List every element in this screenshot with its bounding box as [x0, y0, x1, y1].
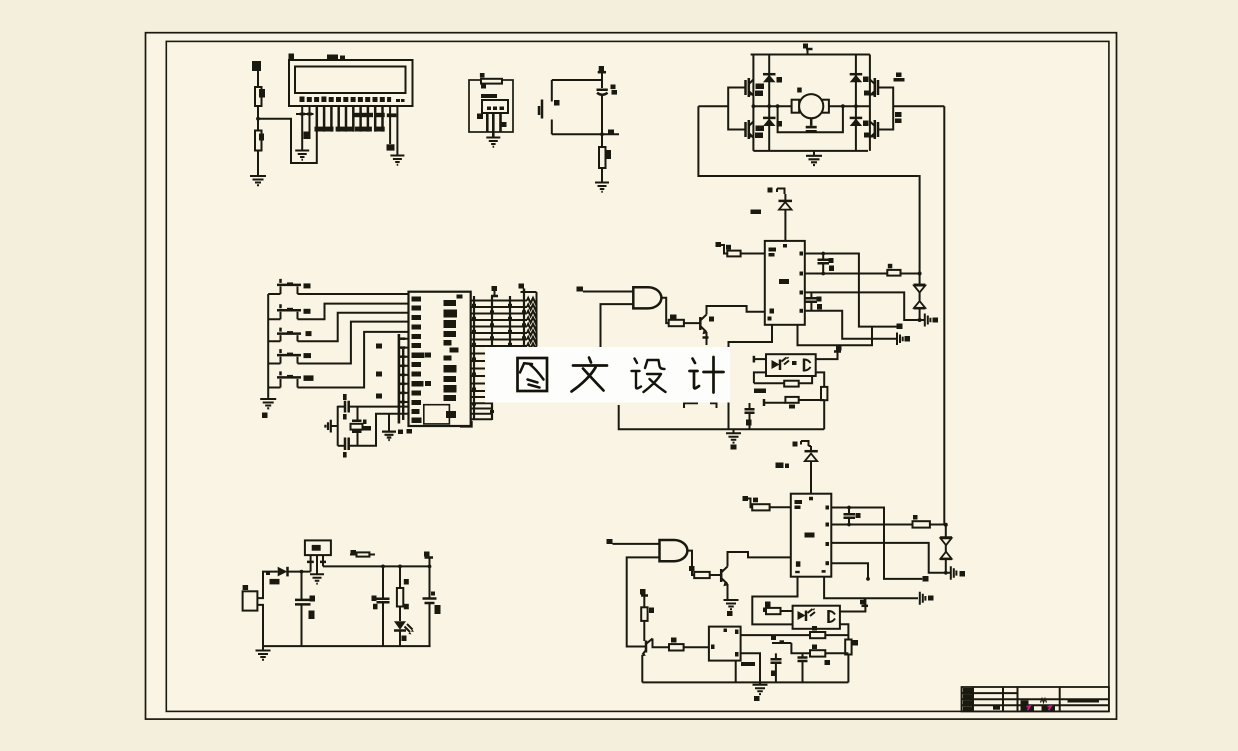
resistor R5	[669, 320, 684, 326]
resonator X1 box	[482, 100, 508, 113]
wire	[601, 96, 603, 148]
transistor Q1	[746, 78, 749, 97]
bus bar 3	[509, 296, 511, 347]
pin net tick bar	[296, 113, 314, 115]
transistor Q6	[720, 569, 723, 582]
output rail	[323, 565, 430, 567]
LCD display inner window	[295, 67, 406, 94]
node V+ terminal	[803, 44, 808, 49]
capacitor C10 below motor	[810, 118, 813, 126]
wire	[613, 543, 660, 545]
opto pin right top hook	[816, 352, 838, 360]
button S5	[277, 349, 301, 355]
VCC hook right	[429, 558, 431, 567]
wire gate bus left	[698, 88, 745, 130]
regulator pins	[311, 555, 323, 574]
wire gate bus right	[878, 88, 944, 130]
node hook + label	[716, 242, 722, 247]
opto right top pin	[840, 598, 866, 611]
MCU right pin rows with resistor network RP1	[471, 301, 527, 347]
hidden component top edge marks	[684, 403, 717, 408]
driver IC U6	[791, 494, 832, 577]
timer U8 box	[709, 627, 741, 661]
capacitor C7	[382, 566, 384, 598]
driver IC U4	[765, 241, 805, 325]
capacitor C13	[822, 254, 824, 260]
watermark char TU	[518, 358, 548, 391]
pin net label bars row2	[315, 127, 334, 132]
pin label blob	[477, 114, 483, 120]
ground	[813, 151, 815, 156]
wire diode column 2	[855, 55, 857, 151]
resistor R10 row	[763, 399, 766, 406]
capacitor C11	[345, 401, 349, 413]
resistor R12	[752, 504, 769, 510]
ground	[295, 151, 309, 160]
wire top pin	[257, 572, 277, 599]
wire	[298, 304, 409, 320]
wire AND output to R11	[687, 551, 694, 575]
wire right outer long	[943, 106, 945, 524]
resistor R1	[255, 87, 262, 106]
capacitor C5b	[802, 653, 804, 657]
ground J	[262, 646, 264, 650]
transistor Q7	[645, 641, 648, 653]
MCU inner notch	[424, 405, 450, 424]
wire bottom pin	[257, 605, 263, 646]
bus bar 4	[523, 292, 525, 347]
wire to LCD pin3	[258, 119, 317, 163]
wire from H-bridge gate	[944, 525, 946, 538]
resistor R18	[810, 632, 825, 638]
LCD pin number labels	[300, 97, 305, 103]
wire	[710, 574, 722, 576]
wire left	[551, 80, 553, 102]
wire button bus	[267, 294, 269, 397]
title block table	[962, 687, 1109, 711]
label bar	[481, 94, 497, 98]
resistor R17	[669, 644, 684, 650]
transistor Q5	[699, 317, 702, 330]
wire left transistor column	[752, 55, 754, 151]
wire emitter	[641, 655, 643, 683]
ground	[390, 156, 404, 165]
capacitor C12	[345, 438, 349, 451]
wire	[288, 571, 311, 573]
wire bottom rail	[619, 405, 825, 429]
title block magenta marks	[1027, 706, 1031, 710]
node PWM2 input label	[607, 539, 613, 544]
wire	[298, 332, 409, 388]
wire	[298, 313, 409, 342]
diode D3	[850, 75, 863, 83]
wire pin A right	[805, 254, 897, 327]
node VCC hook above diode	[768, 188, 773, 193]
wire AND output to R5	[661, 298, 668, 323]
node hook 2	[492, 286, 498, 291]
resistor R8 vertical	[821, 387, 827, 400]
transistor Q4	[875, 120, 878, 139]
node hook + label	[743, 496, 749, 501]
wire bottom	[552, 133, 619, 135]
wire left lower	[551, 120, 553, 135]
diode D4	[850, 119, 863, 127]
LCD pins 3-12	[317, 106, 383, 132]
optocoupler U5	[766, 354, 816, 376]
MCU U2	[409, 292, 471, 426]
wire pin B with resistor R7	[805, 273, 888, 275]
button S3	[277, 304, 301, 310]
LCD pin 14 wire	[396, 106, 398, 155]
wire	[583, 291, 633, 293]
MCU pin name blobs left column	[412, 297, 422, 302]
wire inner loop	[778, 106, 843, 132]
bus bar 1	[473, 296, 475, 420]
wire XTAL1	[349, 406, 409, 408]
button S6	[277, 371, 301, 377]
resistor R11	[694, 572, 710, 578]
zener pair D8	[914, 284, 926, 287]
ground sideways left	[332, 425, 338, 427]
label bar	[754, 389, 766, 394]
MCU pin name blobs right column	[444, 300, 457, 306]
resistor R6	[727, 251, 740, 257]
AND gate U3A	[633, 287, 661, 308]
wire U8 right pin1 to R18	[741, 634, 810, 636]
ground C	[733, 429, 735, 433]
resistor R3	[481, 79, 502, 84]
MCU right lower pin rows	[471, 354, 492, 420]
label blobs below MCU	[398, 430, 403, 435]
wire lower input	[601, 304, 634, 347]
title block filled cells	[963, 688, 973, 693]
wire pin B with resistor R13	[831, 524, 912, 526]
LCD module U1 outer box	[289, 60, 413, 106]
net label blobs	[376, 344, 382, 349]
opto pins left	[754, 358, 766, 360]
resistor R19 row	[791, 643, 810, 653]
resistor R9 row	[754, 382, 784, 384]
wire IC bottom pin 1	[729, 325, 773, 430]
wire	[741, 253, 765, 255]
node VCC label	[252, 61, 261, 71]
capacitor C9	[601, 80, 603, 88]
wire diode column 1	[768, 55, 770, 151]
button S2	[277, 279, 301, 285]
wire	[770, 506, 791, 508]
title block mark	[1041, 699, 1047, 703]
resistor pack common rail	[521, 292, 537, 346]
label bar	[751, 210, 762, 215]
node VCC hook	[523, 289, 526, 293]
regulator U9 7805	[305, 540, 331, 555]
button S4	[277, 328, 301, 334]
wire right transistor column	[869, 55, 871, 151]
diode D7	[278, 567, 288, 577]
resistor pack zigzags	[527, 298, 537, 349]
wire bottom rail	[642, 681, 848, 683]
MCU left stub pins with bus	[398, 339, 409, 402]
AND gate U3B	[660, 540, 688, 561]
wire lower input	[627, 557, 660, 646]
wire mid rail right	[829, 105, 870, 107]
crystal circuit: left rail	[337, 406, 339, 446]
wire loop	[469, 80, 513, 132]
node label blob	[304, 132, 311, 140]
capacitor C4	[848, 508, 850, 514]
ground	[486, 138, 500, 147]
diode D6	[805, 450, 818, 453]
watermark char JI	[690, 357, 724, 393]
ground sideways F	[920, 592, 926, 605]
wire feedback loop to H-bridge	[918, 176, 919, 285]
opto pin right bottom to R8	[816, 372, 825, 387]
wire emitter to ground	[727, 584, 729, 600]
wire	[298, 293, 409, 295]
connector J1	[243, 591, 258, 610]
node VCC terminal	[599, 66, 604, 72]
wire top	[552, 79, 602, 81]
node tap terminal	[860, 600, 866, 605]
switch S1	[539, 100, 542, 119]
label blob	[480, 73, 485, 78]
wire IC bottom pin 2	[824, 577, 918, 599]
bus bar 2	[491, 296, 493, 420]
wire bottom rail	[263, 645, 431, 647]
pin net label bars row1	[354, 113, 373, 117]
opto right bottom pin to R15	[840, 624, 849, 639]
label Q group	[896, 73, 902, 78]
wire	[684, 322, 700, 324]
diode D2	[763, 119, 776, 127]
node PWM1 input label	[577, 287, 584, 292]
ground sideways A	[920, 319, 925, 321]
ground under MCU	[388, 414, 390, 432]
wire mid rail left	[753, 105, 791, 107]
wire U8 bottom pin	[735, 661, 737, 683]
crystal Y1	[357, 407, 359, 421]
wire collector	[707, 306, 765, 315]
capacitor C3	[749, 403, 751, 409]
diode D1	[763, 75, 776, 83]
left chain: hook + R16	[640, 589, 646, 595]
floating resistor R20	[351, 550, 357, 556]
label blobs	[895, 112, 902, 117]
zener pair D9	[940, 536, 952, 539]
resonator pins	[487, 113, 500, 137]
transistor Q3	[875, 78, 878, 97]
wire	[257, 71, 259, 87]
wire pin C	[831, 543, 951, 573]
optocoupler U7	[793, 606, 840, 629]
title block long bar	[1068, 699, 1100, 703]
resistor R2	[255, 131, 262, 151]
ground	[595, 183, 609, 192]
wire U8 right pin2 to ground	[741, 653, 760, 684]
resistor R4	[599, 147, 606, 168]
wire left outer	[698, 106, 918, 176]
wire	[601, 168, 603, 182]
node label blob	[387, 144, 395, 150]
bus tick marks	[472, 304, 476, 307]
capacitor C14	[810, 292, 812, 297]
watermark char SHE	[632, 359, 666, 393]
wire	[257, 151, 259, 177]
LED D10	[399, 607, 401, 622]
wire IC bottom pin 2	[798, 325, 873, 346]
LCD pin 1 wire	[301, 106, 303, 150]
wire bottom rail	[753, 150, 868, 152]
wire collector	[728, 552, 791, 567]
ground I	[310, 574, 324, 583]
resistor R15 vertical	[845, 640, 851, 655]
LCD pin 13 wire	[389, 106, 391, 144]
ground H	[753, 685, 768, 694]
label blobs	[776, 463, 784, 469]
motor M1	[792, 100, 800, 113]
wire IC bottom pin 1 to opto	[752, 577, 797, 625]
capacitor C5	[775, 653, 777, 658]
wire pin D	[831, 563, 868, 579]
wire pin A right	[831, 508, 922, 579]
ground sideways B	[897, 333, 903, 346]
node junction	[256, 117, 260, 121]
wire emitter	[706, 332, 708, 345]
wire pin D	[805, 311, 897, 339]
ground	[267, 397, 269, 399]
diode D5	[779, 200, 793, 203]
ground sideways G2	[951, 566, 957, 580]
wire top rail	[751, 54, 870, 56]
transistor Q2	[746, 120, 749, 139]
wire XTAL2	[349, 414, 409, 446]
wire	[257, 106, 259, 131]
wire pin C	[805, 292, 920, 320]
watermark char WEN	[572, 358, 608, 392]
opto input resistor R14	[765, 602, 771, 608]
wire	[298, 322, 409, 364]
LCD pin 2 wire	[309, 106, 311, 132]
node VCC hook above diode	[793, 442, 798, 447]
capacitor C8	[429, 566, 431, 598]
label blob	[741, 662, 755, 666]
LCD label	[327, 55, 338, 61]
ground	[250, 176, 266, 185]
wire to R17	[653, 639, 670, 648]
jumper mark	[772, 642, 791, 644]
LED branch resistor R21	[399, 566, 401, 588]
ground D	[724, 600, 739, 609]
capacitor C6	[301, 572, 303, 600]
